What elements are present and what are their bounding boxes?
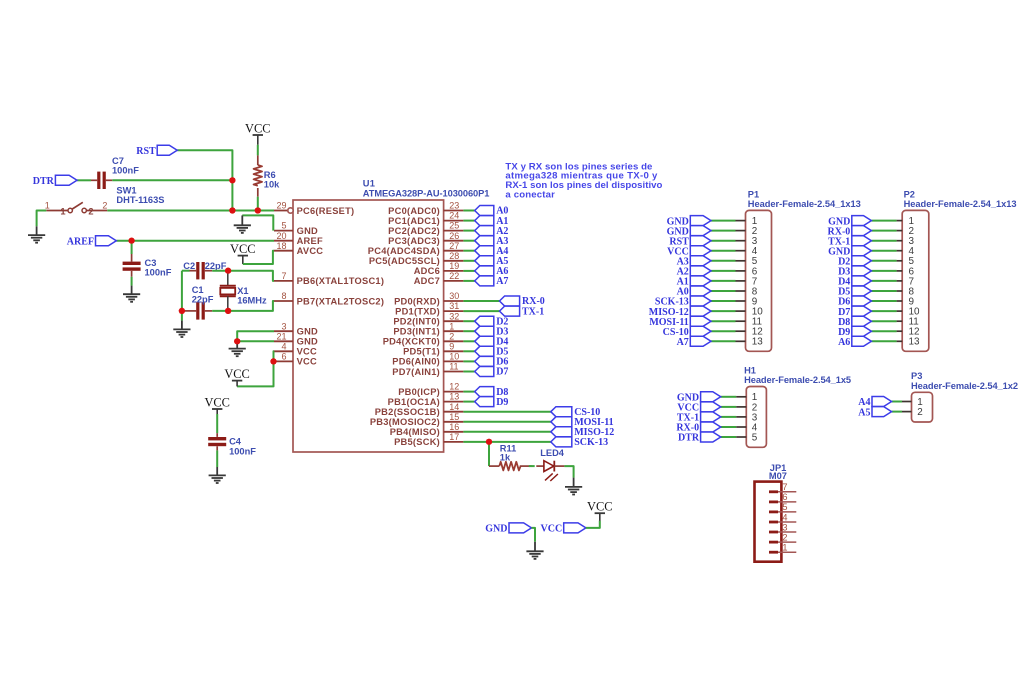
H1 pin 1 net GND [721, 392, 758, 403]
P2 pin 6 net D3 [871, 266, 914, 277]
node A6 flag at P2 pin 13 [838, 336, 871, 348]
node CS-10 flag [551, 407, 601, 418]
node A2 flag at P1 pin 6 [677, 266, 711, 278]
node GND flag at P2 pin 4 [828, 246, 871, 258]
svg-text:1: 1 [45, 200, 50, 210]
svg-text:C4: C4 [229, 437, 242, 447]
svg-text:VCC: VCC [587, 499, 612, 513]
svg-text:16MHz: 16MHz [237, 295, 267, 305]
svg-text:PC0(ADC0): PC0(ADC0) [388, 206, 440, 216]
wire net A0 [463, 210, 474, 212]
node SCK-13 flag [551, 437, 608, 448]
node RST flag at P1 pin 3 [669, 236, 711, 248]
node D7 flag [475, 367, 509, 378]
P1 pin 8 net A0 [711, 286, 758, 297]
svg-text:19: 19 [449, 261, 459, 271]
node GND flag at P1 pin 2 [667, 226, 711, 238]
wire net A3 [463, 240, 474, 242]
svg-text:23: 23 [449, 201, 459, 211]
wire U1 pin21 GND [237, 340, 274, 342]
svg-text:GND: GND [485, 524, 507, 535]
U1 pin 27 PC4(ADC4SDA) [368, 241, 464, 256]
node A6 flag [475, 266, 509, 277]
U1 pin 26 PC3(ADC3) [388, 231, 463, 246]
wire net A2 [463, 230, 474, 232]
U1 pin 22 ADC7 [414, 271, 464, 286]
node A1 flag at P1 pin 7 [677, 276, 711, 288]
svg-text:PD3(INT1): PD3(INT1) [393, 327, 440, 337]
P2 pin 10 net D7 [871, 307, 920, 318]
H1 pin 2 net VCC [721, 402, 758, 413]
H1 pin 5 net DTR [721, 432, 758, 443]
wire C3 to ground [131, 277, 133, 286]
wire net D8 [463, 391, 474, 393]
wire VCC flag to power [586, 521, 600, 528]
svg-text:VCC: VCC [297, 357, 317, 367]
junction C7/RST [229, 177, 235, 183]
node D7 flag at P2 pin 10 [838, 306, 871, 318]
svg-text:DHT-1163S: DHT-1163S [116, 195, 164, 205]
node A0 flag at P1 pin 8 [677, 286, 711, 298]
connector P3 name [911, 371, 922, 381]
wire XTAL2 net left rail [181, 271, 183, 321]
wire R11 to LED4 [529, 465, 535, 467]
node D8 flag at P2 pin 11 [838, 316, 871, 328]
U1 pin 4 VCC [274, 341, 317, 356]
U1 pin 24 PC1(ADC1) [388, 211, 463, 226]
P2 pin 7 net D4 [871, 276, 914, 287]
U1 pin 15 PB3(MOSIOC2) [370, 412, 464, 427]
svg-text:12: 12 [449, 382, 459, 392]
junction XTAL1/crystal [225, 268, 231, 274]
wire net A1 [463, 220, 474, 222]
node GND flag at H1 pin 1 [677, 392, 721, 404]
wire net D7 [463, 371, 474, 373]
svg-text:PB7(XTAL2TOSC2): PB7(XTAL2TOSC2) [297, 296, 385, 306]
junction C1 left [179, 308, 185, 314]
P1 pin 13 net A7 [711, 337, 763, 348]
svg-text:30: 30 [449, 291, 459, 301]
wire C4 to ground [216, 450, 218, 467]
svg-text:AVCC: AVCC [297, 246, 324, 256]
svg-text:PC1(ADC1): PC1(ADC1) [388, 216, 440, 226]
U1 pin 9 PD5(T1) [403, 341, 463, 356]
svg-text:C2: C2 [183, 261, 195, 271]
U1 pin 30 PD0(RXD) [394, 291, 463, 306]
P2 pin 13 net A6 [871, 337, 920, 348]
svg-text:A6: A6 [838, 337, 850, 348]
U1 pin 7 PB6(XTAL1TOSC1) [274, 271, 384, 286]
svg-text:20: 20 [276, 231, 286, 241]
wire net A5 [463, 260, 474, 262]
ground at U1 pin5 [234, 215, 251, 233]
svg-text:13: 13 [909, 337, 920, 348]
svg-text:2: 2 [88, 206, 93, 216]
wire net D5 [463, 350, 474, 352]
P1 pin 1 net GND [711, 216, 758, 227]
svg-text:22: 22 [449, 271, 459, 281]
wire DTR to C7 [77, 179, 91, 181]
wire C7 to RST node [112, 179, 232, 181]
svg-text:DTR: DTR [678, 433, 700, 444]
wire net MISO-12 [463, 431, 550, 433]
U1 pin 3 GND [274, 321, 318, 336]
U1 pin 10 PD6(AIN0) [392, 352, 463, 367]
U1 pin 31 PD1(TXD) [395, 301, 463, 316]
svg-text:PC5(ADC5SCL): PC5(ADC5SCL) [369, 256, 440, 266]
svg-text:PC4(ADC4SDA): PC4(ADC4SDA) [368, 246, 440, 256]
svg-text:PB1(OC1A): PB1(OC1A) [388, 397, 440, 407]
svg-text:22pF: 22pF [205, 261, 227, 271]
node D8 flag [475, 387, 509, 398]
P2 pin 4 net GND [871, 246, 914, 257]
svg-text:PB4(MISO): PB4(MISO) [390, 427, 440, 437]
wire R6 to reset net [257, 197, 259, 211]
node RX-0 flag at P2 pin 2 [828, 226, 872, 238]
svg-text:D9: D9 [496, 397, 508, 408]
svg-text:PD1(TXD): PD1(TXD) [395, 306, 440, 316]
node RST flag [136, 145, 177, 157]
svg-text:DTR: DTR [33, 176, 55, 187]
P1 pin 5 net A3 [711, 256, 758, 267]
connector P1 body [746, 210, 772, 351]
node TX-1 flag at P2 pin 3 [828, 236, 871, 248]
svg-text:3: 3 [281, 321, 286, 331]
P1 pin 3 net RST [711, 236, 758, 247]
node A5 flag at P3 pin 2 [858, 407, 891, 419]
junction R6 bottom [255, 207, 261, 213]
wire U1 pin6 VCC [273, 360, 276, 362]
svg-text:PD6(AIN0): PD6(AIN0) [392, 357, 440, 367]
wire U1 pin3 GND [237, 331, 274, 341]
ground under C4 [209, 467, 226, 483]
U1 pin 13 PB1(OC1A) [388, 392, 464, 407]
svg-text:100nF: 100nF [229, 446, 256, 456]
node AREF flag [67, 236, 117, 248]
P1 pin 9 net SCK-13 [711, 296, 758, 307]
svg-text:8: 8 [281, 291, 286, 301]
svg-text:PB5(SCK): PB5(SCK) [394, 437, 440, 447]
P1 pin 11 net MOSI-11 [711, 317, 763, 328]
wire net MOSI-11 [463, 421, 550, 423]
power VCC at AVCC [230, 242, 255, 264]
node RX-0 flag [500, 296, 545, 307]
wire net A6 [463, 270, 474, 272]
svg-text:10: 10 [449, 352, 459, 362]
svg-text:A7: A7 [496, 276, 508, 287]
ground under LED4 [565, 478, 582, 495]
junction VCC pins [270, 358, 276, 364]
U1 pin 21 GND [274, 331, 318, 346]
node A7 flag at P1 pin 13 [677, 336, 711, 348]
JP1 pin 7 [769, 482, 796, 493]
P2 pin 9 net D6 [871, 296, 914, 307]
node A7 flag [475, 276, 509, 287]
svg-text:M07: M07 [769, 471, 787, 481]
svg-text:GND: GND [297, 327, 318, 337]
junction AREF/C3 [129, 238, 135, 244]
svg-text:15: 15 [449, 412, 459, 422]
svg-text:GND: GND [297, 226, 318, 236]
svg-text:14: 14 [449, 402, 459, 412]
svg-text:ADC6: ADC6 [414, 266, 440, 276]
wire C1 to U1 pin8 [212, 301, 274, 311]
wire AVCC [243, 251, 274, 264]
switch SW1 [45, 186, 165, 217]
capacitor C4 [208, 433, 256, 456]
U1 pin 29 PC6(RESET) [274, 201, 354, 216]
node D9 flag [475, 397, 509, 408]
connector P3 body [912, 392, 933, 422]
node D9 flag at P2 pin 12 [838, 326, 871, 338]
wire net A4 [463, 250, 474, 252]
P2 pin 12 net D9 [871, 327, 919, 338]
svg-text:GND: GND [297, 337, 318, 347]
note text (blue) [505, 161, 662, 200]
P1 pin 6 net A2 [711, 266, 758, 277]
svg-text:RST: RST [136, 146, 156, 157]
svg-text:32: 32 [449, 311, 459, 321]
svg-text:28: 28 [449, 251, 459, 261]
P2 pin 5 net D2 [871, 256, 914, 267]
P2 pin 11 net D8 [871, 317, 919, 328]
svg-text:5: 5 [281, 221, 286, 231]
wire net D2 [463, 320, 474, 322]
wire U1 pin5 GND elbow [242, 215, 273, 230]
node VCC flag (bottom) [541, 523, 586, 535]
U1 pin 20 AREF [274, 231, 323, 246]
wire AREF to C3 [131, 241, 133, 254]
wire SW1 pin2 to U1 reset [107, 210, 274, 212]
node D6 flag [475, 356, 509, 367]
svg-text:PC2(ADC2): PC2(ADC2) [388, 226, 440, 236]
wire VCC to R6 [257, 145, 259, 156]
node MOSI-11 flag at P1 pin 11 [649, 316, 711, 328]
node RX-0 flag at H1 pin 4 [676, 422, 720, 434]
svg-text:PB2(SSOC1B): PB2(SSOC1B) [375, 407, 440, 417]
wire VCC to C4 [216, 414, 218, 433]
node MISO-12 flag [551, 427, 614, 438]
U1 pin 32 PD2(INT0) [393, 311, 463, 326]
svg-text:Header-Female-2.54_1x13: Header-Female-2.54_1x13 [748, 199, 861, 209]
P1 pin 12 net CS-10 [711, 327, 763, 338]
wire U1 pin4 VCC [237, 351, 274, 386]
LED LED4 [536, 448, 564, 481]
node D4 flag at P2 pin 7 [838, 276, 871, 288]
node GND flag (bottom) [485, 523, 531, 535]
svg-text:24: 24 [449, 211, 459, 221]
wire SW1 pin1 to ground [37, 211, 47, 227]
U1 pin 18 AVCC [274, 241, 323, 256]
svg-text:LED4: LED4 [540, 448, 565, 458]
svg-text:VCC: VCC [204, 396, 229, 410]
svg-text:7: 7 [281, 271, 286, 281]
node A4 flag at P3 pin 1 [858, 397, 891, 409]
U1 pin 1 PD3(INT1) [393, 321, 463, 336]
crystal X1 [220, 271, 267, 311]
svg-text:AREF: AREF [67, 236, 94, 247]
svg-text:TX-1: TX-1 [522, 306, 544, 317]
connector P2 body [902, 210, 929, 351]
power VCC at C4 [204, 396, 229, 414]
junction GND pins [234, 338, 240, 344]
node A3 flag at P1 pin 5 [677, 256, 711, 268]
svg-text:ADC7: ADC7 [414, 276, 440, 286]
svg-text:PD7(AIN1): PD7(AIN1) [392, 367, 440, 377]
connector P3 value [911, 381, 1018, 391]
connector JP1 name [770, 463, 787, 473]
wire net D3 [463, 330, 474, 332]
node D4 flag [475, 336, 509, 347]
junction RST net [229, 207, 235, 213]
node D2 flag at P2 pin 5 [838, 256, 871, 268]
connector P1 value [748, 199, 861, 209]
node SCK-13 flag at P1 pin 9 [655, 296, 711, 308]
wire net RST [177, 150, 232, 210]
P2 pin 2 net RX-0 [871, 226, 914, 237]
P1 pin 4 net VCC [711, 246, 758, 257]
svg-text:22pF: 22pF [192, 295, 214, 305]
node A3 flag [475, 236, 509, 247]
node D5 flag [475, 346, 509, 357]
connector H1 value [744, 375, 851, 385]
svg-text:16: 16 [449, 422, 459, 432]
svg-text:1k: 1k [500, 453, 511, 463]
P3 pin 2 net A5 [892, 407, 923, 418]
svg-text:5: 5 [752, 432, 758, 443]
node A1 flag [475, 216, 509, 227]
svg-text:PC6(RESET): PC6(RESET) [297, 206, 355, 216]
P1 pin 7 net A1 [711, 276, 757, 287]
junction SCK net [486, 439, 492, 445]
svg-text:13: 13 [449, 392, 459, 402]
P1 pin 2 net GND [711, 226, 757, 237]
svg-text:6: 6 [281, 352, 286, 362]
node D3 flag [475, 326, 509, 337]
svg-text:a conectar: a conectar [505, 190, 555, 201]
node VCC flag at H1 pin 2 [677, 402, 720, 414]
node D6 flag at P2 pin 9 [838, 296, 871, 308]
svg-text:PD0(RXD): PD0(RXD) [394, 296, 440, 306]
node TX-1 flag [500, 306, 545, 317]
svg-text:ATMEGA328P-AU-1030060P1: ATMEGA328P-AU-1030060P1 [363, 188, 490, 198]
H1 pin 3 net TX-1 [721, 412, 758, 423]
wire net D9 [463, 401, 474, 403]
svg-text:21: 21 [276, 331, 286, 341]
svg-text:AREF: AREF [297, 236, 323, 246]
svg-text:PD4(XCKT0): PD4(XCKT0) [383, 337, 440, 347]
U1 pin 6 VCC [274, 352, 317, 367]
JP1 pin 6 [769, 492, 796, 503]
svg-text:P3: P3 [911, 371, 922, 381]
wire net D6 [463, 360, 474, 362]
svg-text:U1: U1 [363, 179, 375, 189]
JP1 pin 5 [769, 502, 796, 513]
svg-text:P1: P1 [748, 189, 759, 199]
svg-text:SCK-13: SCK-13 [574, 437, 608, 448]
svg-text:17: 17 [449, 432, 459, 442]
ground at U1 pins 3/21 [229, 341, 246, 356]
wire net A7 [463, 280, 474, 282]
svg-text:PD5(T1): PD5(T1) [403, 347, 440, 357]
connector JP1 body [755, 482, 782, 562]
svg-text:1: 1 [60, 206, 65, 216]
P2 pin 3 net TX-1 [871, 236, 914, 247]
svg-text:4: 4 [281, 341, 286, 351]
connector H1 name [744, 366, 756, 376]
U1 pin 12 PB0(ICP) [398, 382, 463, 397]
U1 value label [363, 188, 490, 198]
wire C2 to U1 pin7 [212, 271, 274, 281]
svg-text:PD2(INT0): PD2(INT0) [393, 317, 440, 327]
svg-text:A7: A7 [677, 337, 689, 348]
svg-text:Header-Female-2.54_1x5: Header-Female-2.54_1x5 [744, 375, 851, 385]
node A4 flag [475, 246, 509, 257]
ground under C3 [123, 286, 140, 302]
node MISO-12 flag at P1 pin 10 [649, 306, 711, 318]
svg-text:P2: P2 [904, 189, 915, 199]
svg-text:1: 1 [449, 321, 454, 331]
IC U1 ATMEGA328P body [293, 200, 444, 452]
node GND flag at P1 pin 1 [667, 216, 711, 228]
U1 name label [363, 179, 375, 189]
JP1 pin 3 [769, 522, 796, 533]
U1 pin 25 PC2(ADC2) [388, 221, 463, 236]
U1 pin 19 ADC6 [414, 261, 464, 276]
connector P1 name [748, 189, 759, 199]
node DTR flag [33, 175, 77, 187]
U1 pin 5 GND [274, 221, 318, 236]
power VCC at U1 pins 4/6 [224, 367, 249, 386]
JP1 pin 1 [769, 543, 796, 554]
wire LED4 to ground [564, 466, 573, 478]
ground under GND flag [526, 542, 543, 559]
svg-text:2: 2 [917, 407, 923, 418]
svg-text:13: 13 [752, 337, 763, 348]
node D5 flag at P2 pin 8 [838, 286, 871, 298]
capacitor C2 [183, 261, 226, 279]
svg-text:9: 9 [449, 341, 454, 351]
power VCC above R6 [245, 122, 270, 145]
svg-text:VCC: VCC [541, 524, 563, 535]
connector P2 name [904, 189, 915, 199]
svg-text:27: 27 [449, 241, 459, 251]
svg-text:100nF: 100nF [112, 165, 139, 175]
P2 pin 8 net D5 [871, 286, 914, 297]
wire net TX-1 [463, 310, 499, 312]
wire net AREF [116, 240, 274, 242]
JP1 pin 4 [769, 512, 796, 523]
P3 pin 1 net A4 [892, 397, 924, 408]
wire net D4 [463, 340, 474, 342]
svg-text:2: 2 [102, 200, 107, 210]
svg-text:18: 18 [276, 241, 286, 251]
svg-text:VCC: VCC [230, 242, 255, 256]
capacitor C1 [182, 285, 214, 319]
svg-text:PB6(XTAL1TOSC1): PB6(XTAL1TOSC1) [297, 276, 385, 286]
resistor R11 [489, 443, 532, 470]
svg-text:A5: A5 [858, 407, 870, 418]
node DTR flag at H1 pin 5 [678, 432, 721, 444]
svg-text:PC3(ADC3): PC3(ADC3) [388, 236, 440, 246]
svg-text:11: 11 [449, 362, 458, 372]
wire net SCK-13 [463, 441, 550, 443]
node A5 flag [475, 256, 509, 267]
connector JP1 value [769, 471, 787, 481]
node D3 flag at P2 pin 6 [838, 266, 871, 278]
connector P2 value [904, 199, 1017, 209]
node A2 flag [475, 226, 509, 237]
